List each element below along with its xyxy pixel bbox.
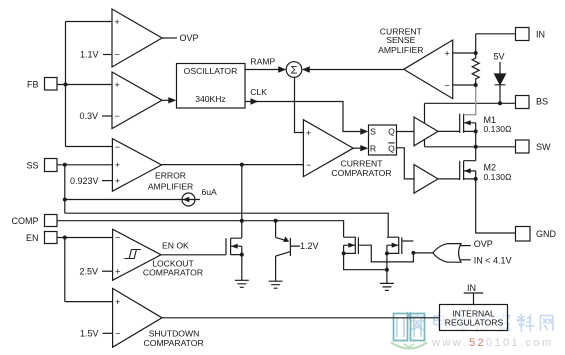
svg-text:SENSE: SENSE [386, 35, 415, 45]
wire COMP node vertical [241, 165, 243, 238]
op-amp U2 FB comparator [112, 72, 162, 129]
svg-text:Q: Q [388, 144, 395, 154]
wire M1 source to SW [475, 131, 477, 146]
wire Q to driver [397, 131, 415, 133]
svg-text:0.130Ω: 0.130Ω [484, 172, 513, 182]
svg-text:S: S [370, 127, 376, 137]
ground under 1.2V clamp [269, 281, 283, 288]
wire EN vertical to shutdown comparator [64, 238, 66, 302]
wire M1 gate [438, 130, 460, 132]
watermark char 电 [434, 314, 446, 331]
svg-text:0.130Ω: 0.130Ω [484, 124, 513, 134]
junction dot Q4 source [342, 251, 346, 255]
wire SS discharge line [65, 213, 388, 237]
svg-text:+: + [115, 297, 120, 307]
transistor Q3 EN-OK pulldown FET [226, 238, 242, 255]
wire PNP clamp emitter vertical [275, 221, 277, 238]
svg-text:CLK: CLK [250, 87, 267, 97]
wire FB comparator output to oscillator [162, 99, 169, 101]
wire 1.5V stub [103, 332, 113, 334]
wire FB vertical bus [65, 22, 67, 147]
wire FB port to FB comparator [57, 84, 112, 86]
transistor M2 low-side MOSFET [460, 161, 476, 180]
svg-text:OVP: OVP [180, 33, 199, 43]
wire OR gate output [413, 252, 433, 254]
arrowhead into R [360, 145, 368, 151]
wire sigma down to current comparator [295, 77, 304, 133]
port IN [516, 28, 530, 41]
wire internal regulators IN terminal [464, 293, 484, 305]
junction dot COMP-ENOK [240, 219, 244, 223]
latch Qbar overbar [388, 142, 394, 144]
watermark book icon [391, 312, 427, 349]
svg-text:+: + [115, 267, 120, 277]
svg-text:COMPARATOR: COMPARATOR [144, 338, 204, 348]
svg-text:SHUTDOWN: SHUTDOWN [149, 328, 200, 338]
svg-text:AMPLIFIER: AMPLIFIER [148, 182, 193, 192]
wire error amp minus input [66, 146, 113, 148]
svg-text:+: + [115, 80, 120, 90]
svg-text:−: − [115, 111, 120, 121]
svg-text:Q: Q [388, 127, 395, 137]
watermark char 网 [540, 316, 553, 331]
svg-text:−: − [445, 80, 450, 90]
svg-text:CURRENT: CURRENT [340, 158, 383, 168]
wire 6uA arrow tail [188, 199, 195, 201]
svg-text:R: R [370, 144, 376, 154]
op-amp U8 high-side gate driver [414, 117, 438, 146]
port EN [45, 232, 58, 244]
svg-text:−: − [306, 160, 311, 170]
svg-text:+: + [306, 128, 311, 138]
port COMP [45, 215, 58, 227]
junction dot sense plus [474, 51, 478, 55]
op-amp U5 shutdown comparator [113, 288, 162, 347]
wire gray current sense path [464, 85, 476, 115]
watermark char 维 [454, 314, 469, 331]
watermark char 修 [475, 314, 489, 331]
svg-text:OSCILLATOR: OSCILLATOR [184, 66, 238, 76]
port SS [45, 159, 58, 172]
svg-text:+: + [115, 17, 120, 27]
svg-text:2.5V: 2.5V [80, 266, 99, 276]
watermark char 料 [517, 314, 534, 331]
arrowhead into S [360, 128, 368, 134]
watermark url www.520101.com [431, 337, 554, 349]
current source 6uA [182, 193, 195, 206]
svg-text:GND: GND [536, 229, 557, 239]
junction dot diode BS [498, 101, 502, 105]
arrowhead M2 body [464, 168, 471, 173]
wire sense amp + input [453, 52, 476, 54]
wire CLK line [245, 102, 362, 132]
junction dot error output [240, 163, 244, 167]
junction dot FB [64, 83, 68, 87]
transistor Q4 COMP pulldown FET [344, 237, 359, 254]
arrowhead FB comp to oscillator [168, 97, 176, 103]
svg-text:ERROR: ERROR [155, 171, 186, 181]
junction dot ENOK FET source [240, 253, 244, 257]
wire shutdown comparator + input [65, 301, 113, 303]
junction dot 6uA [63, 198, 67, 202]
svg-text:6uA: 6uA [202, 187, 218, 197]
wire 0.3V stub [102, 115, 112, 117]
svg-text:www.: www. [431, 337, 468, 349]
junction dot SW [474, 145, 478, 149]
op-amp U3 error amplifier [112, 139, 161, 192]
svg-text:0101.com: 0101.com [486, 337, 554, 349]
arrowhead PNP emitter [283, 236, 289, 242]
wire shutdown output to internal regulators [162, 317, 440, 319]
wire EN port line [57, 237, 113, 239]
svg-text:AMPLIFIER: AMPLIFIER [378, 45, 423, 55]
junction dot SS [63, 163, 67, 167]
watermark char 资 [497, 314, 510, 331]
svg-text:5V: 5V [494, 52, 505, 62]
svg-text:1.1V: 1.1V [80, 50, 99, 60]
wire current comparator output to R [353, 147, 362, 149]
svg-text:1.5V: 1.5V [80, 329, 99, 339]
arrowhead Q3 body [231, 244, 238, 249]
resistor Rsense [472, 53, 479, 85]
svg-text:REGULATORS: REGULATORS [445, 318, 504, 328]
port GND [516, 227, 531, 242]
watermark char 家 [410, 314, 425, 331]
svg-text:RAMP: RAMP [250, 57, 275, 67]
wire SW to M2 drain [464, 147, 476, 161]
wire SW line [425, 146, 517, 148]
summing node sigma [286, 62, 302, 78]
internal regulators block [440, 305, 508, 331]
svg-text:COMPARATOR: COMPARATOR [331, 168, 391, 178]
arrowhead Q4 body [348, 243, 355, 248]
junction dot M1 source [474, 129, 478, 133]
svg-text:IN: IN [467, 283, 476, 293]
wire sense amp to sigma [308, 69, 404, 71]
junction dot EN [63, 236, 67, 240]
svg-text:−: − [115, 50, 120, 60]
junction dot Q5 source [385, 251, 389, 255]
wire Q4 source to rail [344, 253, 387, 269]
wire OVP comparator + input [66, 21, 113, 23]
wire M2 gate [438, 178, 460, 180]
svg-text:IN < 4.1V: IN < 4.1V [474, 255, 512, 265]
wire Q5 source to ground [386, 253, 388, 283]
diode D1 5V to BS [495, 62, 506, 103]
junction dot OR output [411, 251, 415, 255]
svg-text:1.2V: 1.2V [300, 241, 319, 251]
wire BS line [425, 102, 516, 104]
svg-text:BS: BS [536, 97, 548, 107]
wire 2.5V stub [102, 270, 113, 272]
op-amp U9 low-side gate driver [414, 165, 438, 194]
svg-text:−: − [115, 233, 120, 243]
svg-text:IN: IN [536, 30, 545, 40]
hysteresis symbol in lockout comparator [125, 250, 142, 259]
wire 0.923V stub [102, 180, 112, 182]
arrowhead CLK [251, 98, 259, 104]
RS latch U10 [369, 125, 397, 155]
svg-text:340KHz: 340KHz [195, 94, 226, 104]
wire BS to high driver supply [424, 103, 426, 123]
wire error amp output to current comparator [162, 164, 304, 166]
svg-text:FB: FB [27, 80, 39, 90]
svg-text:EN: EN [26, 233, 39, 243]
svg-text:0.923V: 0.923V [70, 176, 99, 186]
arrowhead RAMP into sigma [278, 66, 286, 72]
op-amp U6 current comparator [303, 120, 353, 177]
op-amp U7 current sense amplifier [404, 40, 453, 99]
junction dot source rail [385, 268, 389, 272]
wire SS vertical to discharge line [64, 165, 66, 213]
junction dot COMP-clamp [274, 219, 278, 223]
ground under pulldown FETs [380, 283, 394, 290]
svg-text:+: + [115, 176, 120, 186]
wire RAMP oscillator to sigma [245, 69, 280, 71]
oscillator block [177, 64, 246, 109]
wire 1.1V stub [103, 54, 112, 56]
wire lockout output EN OK [161, 254, 226, 256]
arrowhead 6uA source [183, 197, 190, 202]
wire IN line [476, 34, 516, 53]
wire Q4 gate path [358, 245, 413, 262]
svg-text:0.3V: 0.3V [80, 111, 99, 121]
port FB [45, 78, 58, 91]
wire M2 source to GND port [476, 179, 516, 233]
ground under EN-OK FET [235, 280, 249, 287]
wire 6uA line [65, 199, 200, 201]
port BS [516, 96, 530, 109]
svg-text:−: − [115, 142, 120, 152]
wire OVP output [162, 37, 177, 39]
svg-text:COMP: COMP [12, 216, 39, 226]
wire EN-OK FET source to ground [241, 255, 243, 281]
transistor Q6 1.2V clamp PNP [276, 237, 300, 281]
wire COMP port line [57, 221, 344, 238]
svg-text:−: − [115, 329, 120, 339]
wire IN lt 4.1V input to or-gate [460, 259, 471, 261]
svg-text:COMPARATOR: COMPARATOR [143, 268, 203, 278]
svg-text:OVP: OVP [474, 239, 493, 249]
arrowhead sense amp into sigma [302, 66, 310, 72]
svg-text:Σ: Σ [291, 65, 298, 77]
or-gate U11 [433, 244, 461, 263]
svg-text:SS: SS [27, 160, 39, 170]
transistor M1 high-side MOSFET [460, 114, 476, 133]
arrowhead Q5 body [392, 243, 399, 248]
wire high driver to SW rail stub [424, 140, 426, 147]
svg-text:+: + [445, 48, 450, 58]
arrowhead M1 body [464, 120, 471, 125]
transistor Q5 SS pulldown FET [387, 237, 402, 254]
wire OVP input to or-gate [460, 245, 471, 247]
junction dot sense minus [474, 83, 478, 87]
junction dot M2 source [474, 177, 478, 181]
svg-text:SW: SW [536, 142, 551, 152]
wire sense amp - input [453, 84, 476, 86]
wire SS port to error amp [57, 164, 112, 166]
wire Q5 gate path [402, 240, 414, 242]
svg-text:+: + [115, 160, 120, 170]
op-amp U1 OVP comparator [112, 9, 162, 67]
svg-text:EN OK: EN OK [162, 241, 189, 251]
op-amp U4 lockout comparator [113, 229, 161, 280]
port SW [516, 140, 530, 153]
svg-text:52: 52 [469, 337, 486, 349]
wire Qbar to low driver [397, 148, 415, 179]
